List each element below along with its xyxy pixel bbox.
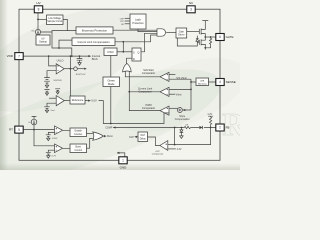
svg-text:Protection: Protection <box>132 22 144 25</box>
svg-text:1.05V: 1.05V <box>52 138 58 140</box>
svg-text:5.0V: 5.0V <box>91 99 97 103</box>
svg-text:Comparator: Comparator <box>152 153 164 156</box>
svg-text:5: 5 <box>18 128 20 132</box>
op-amp UVLO comparator <box>56 64 64 74</box>
wire current source to RT net <box>33 125 35 130</box>
wire amp to Reference box <box>64 100 70 102</box>
wire OLP delay output arrow <box>135 136 138 138</box>
comparator OLP <box>160 141 168 151</box>
wire output node to GATE pin <box>205 36 216 38</box>
flip-flop U1 <box>132 48 141 61</box>
battery Vref <box>44 107 50 110</box>
wire junction to Low Voltage Sample Circuit <box>38 18 47 20</box>
wire Current Limit Compensation left input <box>59 40 72 48</box>
box Current Limit Compensation <box>72 38 115 46</box>
svg-text:Slope: Slope <box>179 116 186 118</box>
zener diode on FB <box>180 128 182 130</box>
ground <box>47 156 50 158</box>
comparator RT lower <box>55 144 63 153</box>
node FB taps <box>174 127 176 129</box>
svg-text:FB: FB <box>226 126 230 130</box>
svg-text:Green: Green <box>107 79 115 83</box>
svg-text:Comparator: Comparator <box>142 107 155 110</box>
svg-text:Mode: Mode <box>108 82 115 86</box>
svg-text:4.2V: 4.2V <box>177 148 182 151</box>
svg-text:8.0V/7.0V: 8.0V/7.0V <box>76 74 86 76</box>
wire OLP output to delay <box>148 137 160 146</box>
resistor R1 on FB bus <box>184 126 190 128</box>
wire sense to soft-start comparator <box>169 78 191 80</box>
svg-text:1: 1 <box>122 159 124 163</box>
svg-text:8: 8 <box>38 8 40 12</box>
transistor Q1 upper driver MOSFET <box>199 23 205 37</box>
wire Brownout Protection left input <box>52 31 76 32</box>
svg-text:BIAS: BIAS <box>92 58 98 61</box>
svg-text:Startup: Startup <box>39 41 47 44</box>
ground <box>180 136 184 139</box>
wire OSC to Green Mode <box>110 56 112 78</box>
wire HV pin down to startup current source <box>37 13 39 30</box>
pin GND <box>119 157 127 164</box>
svg-text:RT: RT <box>9 128 13 132</box>
battery 1.05V reference <box>46 135 51 138</box>
pin GATE <box>216 34 224 41</box>
svg-text:Burst: Burst <box>107 135 113 138</box>
svg-text:4: 4 <box>219 80 221 84</box>
wire OR output arrow <box>103 135 105 137</box>
node staircase junction <box>58 47 60 49</box>
svg-text:Counter: Counter <box>74 133 82 136</box>
svg-text:HV: HV <box>36 1 40 5</box>
svg-text:Reference: Reference <box>72 99 84 102</box>
svg-text:SENSE: SENSE <box>226 80 236 84</box>
wire FB junction down to OLP comparator <box>168 128 211 145</box>
svg-text:UVLO: UVLO <box>57 59 64 62</box>
svg-text:3: 3 <box>190 8 192 12</box>
wire Low Voltage box output to Brownout input <box>63 19 67 30</box>
wire UVLO reference input <box>47 71 56 78</box>
wire OLP reference input <box>168 148 176 150</box>
supply stub for RT current source <box>32 116 37 119</box>
node rail junction reference tap <box>70 55 72 57</box>
watermark swoosh band <box>0 46 232 211</box>
svg-text:Delay: Delay <box>140 139 147 141</box>
svg-text:7: 7 <box>18 54 20 58</box>
svg-text:Vref: Vref <box>51 109 55 112</box>
arrow COMP label on FB bus <box>113 126 116 128</box>
svg-text:S/S Vlimit: S/S Vlimit <box>176 77 187 80</box>
resistor pull-up <box>210 117 212 128</box>
wire flip-flop Q output to AND gate <box>141 33 157 52</box>
wire current limit comparator output to OR <box>129 91 160 93</box>
svg-text:Vlimit: Vlimit <box>176 94 182 97</box>
ground <box>45 110 48 112</box>
svg-text:OLP: OLP <box>140 135 145 137</box>
transistor Q2 lower driver MOSFET <box>199 37 205 48</box>
ground <box>47 138 50 140</box>
wire comparator outputs to counters <box>63 130 70 148</box>
wire counter to OR gate <box>87 133 93 135</box>
svg-text:OTP: OTP <box>120 21 125 23</box>
svg-text:Enable: Enable <box>75 131 83 133</box>
wire driver low-side path <box>177 38 197 46</box>
wire rail to UVLO comparator input <box>49 56 57 66</box>
svg-text:Q: Q <box>138 51 140 54</box>
wire PWM comparator minus input to FB wire <box>164 112 169 114</box>
wire latch output to AND gate <box>138 29 157 32</box>
wire SENSE pin to LEB <box>209 81 216 83</box>
wire AND output to gate driver <box>166 32 176 34</box>
or-gate burst logic <box>93 132 104 140</box>
svg-text:Brownout Protection: Brownout Protection <box>82 29 108 33</box>
svg-text:16V/10V: 16V/10V <box>53 80 62 82</box>
node OSC tap <box>122 41 124 43</box>
box Brownout Protection <box>76 27 113 34</box>
svg-text:GATE: GATE <box>226 35 234 39</box>
node <box>110 123 112 125</box>
svg-text:Driver: Driver <box>178 34 185 37</box>
current source Irt <box>31 119 37 125</box>
wire reference input lower <box>48 150 54 152</box>
comparator RT upper <box>55 126 63 135</box>
wire VDD to reference regulator <box>69 56 71 96</box>
pin HV <box>34 6 42 13</box>
capacitor on VDD rail <box>77 56 83 63</box>
or-gate PWM reset <box>123 63 132 72</box>
comparator input marks <box>56 65 169 150</box>
svg-text:Low Voltage: Low Voltage <box>48 17 61 20</box>
node rail junction UVLO tap <box>48 55 50 57</box>
comparator PWM <box>160 106 169 115</box>
wire LEB to sense distribution net <box>191 81 196 83</box>
svg-text:Comparator: Comparator <box>142 72 155 75</box>
box Reference <box>70 96 85 104</box>
wire current limit compensation to AND gate <box>115 35 157 42</box>
svg-text:Current Limit Compensation: Current Limit Compensation <box>77 40 110 44</box>
resistor gate pulldown <box>205 37 211 48</box>
svg-text:1.2V: 1.2V <box>207 113 212 116</box>
wire soft-start comparator output to OR <box>125 71 160 76</box>
pin NC <box>187 6 195 13</box>
wire sense to current limit comparator <box>169 88 191 90</box>
box Low Voltage Sample Circuit <box>47 15 64 25</box>
node junction on HV line <box>37 19 39 21</box>
box LEB leading edge blanking <box>196 78 209 86</box>
box UV Startup <box>36 35 50 45</box>
pin RT <box>15 126 23 133</box>
wire UVLO output with buffer node <box>64 68 73 70</box>
wire latch input OVP <box>125 17 130 19</box>
diode D2 on FB bus <box>199 126 202 129</box>
capacitor trim reference A <box>44 90 49 93</box>
box Green Mode <box>103 77 120 87</box>
capacitor trim reference B <box>55 89 60 92</box>
svg-text:OSC: OSC <box>107 50 114 54</box>
wire 5V net down and across to PWM comparator <box>99 101 164 124</box>
wire latch input SD <box>125 23 130 25</box>
svg-text:COMP: COMP <box>105 127 113 130</box>
wire latch input OTP <box>125 20 130 22</box>
svg-text:Compensation: Compensation <box>175 118 191 121</box>
box Latch Protection <box>130 14 146 29</box>
box burst control <box>70 144 87 153</box>
comparator soft-start <box>160 72 169 81</box>
wire OR output to flip-flop R <box>127 58 133 64</box>
summing node slope compensation <box>177 108 182 113</box>
wire OSC to flip-flop <box>117 51 132 53</box>
wire reference input upper <box>48 132 54 134</box>
box frequency counter <box>70 128 87 137</box>
svg-text:OLP: OLP <box>129 136 134 139</box>
node rail junction cap tap <box>79 55 81 57</box>
svg-text:LEB: LEB <box>200 80 205 82</box>
pin VDD <box>15 53 23 60</box>
pin SENSE <box>216 79 224 86</box>
wire sense to slope summer arrow <box>183 109 191 111</box>
svg-text:VDD: VDD <box>7 54 14 58</box>
svg-text:2: 2 <box>219 126 221 130</box>
svg-text:OLP: OLP <box>155 151 160 153</box>
svg-text:Burst: Burst <box>76 146 82 149</box>
wire burst to OR gate <box>87 138 93 148</box>
wire driver to Q1 gate <box>187 31 200 33</box>
wire internal ground hook to GND pin <box>117 153 125 157</box>
comparator current limit <box>160 87 169 96</box>
svg-text:Control: Control <box>74 149 82 152</box>
op-amp 5V reference amplifier <box>56 96 64 106</box>
svg-text:Sample Circuit: Sample Circuit <box>47 20 62 23</box>
wire reference input <box>47 103 56 107</box>
svg-text:0.7V: 0.7V <box>52 156 57 158</box>
wire PWM comparator plus input to summer <box>169 107 178 109</box>
wire brownout output to AND gate <box>113 29 157 31</box>
svg-text:Blanking: Blanking <box>198 84 207 86</box>
wire Green Mode down to feedback net <box>110 87 112 124</box>
wire VDD rail to Internal BIAS arrow <box>23 55 88 57</box>
battery 0.7V reference <box>46 152 51 155</box>
wire 5.0V output arrow <box>85 100 88 102</box>
svg-text:6: 6 <box>219 35 221 39</box>
wire RT pin to comparators <box>23 129 54 131</box>
svg-text:GND: GND <box>120 166 128 170</box>
diode D1 gate discharge <box>196 36 199 43</box>
svg-text:OVP: OVP <box>120 18 125 20</box>
wire current source to staircase down to VDD rail <box>41 32 72 56</box>
and-gate driver enable <box>157 29 165 36</box>
ground <box>45 85 48 88</box>
IC boundary <box>19 9 220 160</box>
box OLP Delay <box>138 132 148 142</box>
pin FB <box>216 124 224 131</box>
supply rail for output stage <box>202 21 208 24</box>
node rail junction <box>71 55 73 57</box>
current source Ihv <box>35 29 40 34</box>
box OSC <box>104 48 117 56</box>
wire FB bus <box>113 127 216 129</box>
battery UVLO threshold reference <box>44 78 50 86</box>
box Gate Driver <box>176 28 187 38</box>
svg-text:R: R <box>133 58 135 61</box>
